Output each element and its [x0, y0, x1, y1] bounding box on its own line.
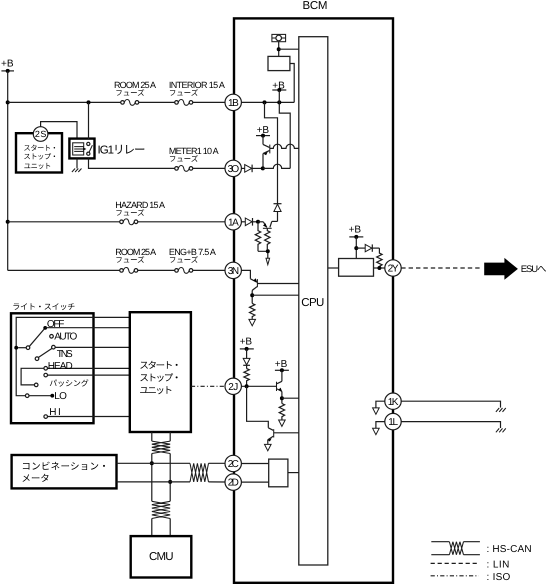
switch arm (pole to OFF): [29, 328, 45, 346]
wire resistor join: [258, 249, 268, 258]
junction CAN-L on rail 2: [168, 480, 172, 484]
wire relay contact feed from 1B row: [88, 102, 90, 139]
twisted pair braid (lower): [152, 501, 170, 518]
junction Q3 collector node: [250, 293, 254, 297]
node +B (Q4 collector): [275, 359, 289, 372]
wire 2Y driver to 2Y pin: [374, 267, 385, 269]
svg-text:CPU: CPU: [301, 297, 324, 309]
diode D4 (2J clamp): [243, 358, 250, 368]
switch pole contact circle: [26, 346, 30, 350]
switch arm 2 pole circle: [35, 357, 39, 361]
wire branch 1 (1B to 1A driver diode): [265, 102, 278, 203]
junction lamp node: [277, 47, 281, 51]
legend ISO symbol: [431, 575, 479, 577]
junction CAN-H on rail 1: [150, 461, 154, 465]
svg-text:AUTO: AUTO: [54, 332, 77, 343]
relay box (internal, top): [268, 56, 290, 70]
node +B (3O transistor): [256, 125, 270, 137]
svg-text:+B: +B: [275, 359, 288, 370]
svg-text:ストップ・: ストップ・: [139, 373, 181, 384]
resistor R5 (Q4 pulldown): [279, 404, 284, 420]
switch LO arm: [29, 395, 51, 397]
svg-text:3O: 3O: [228, 164, 240, 175]
relay IG1 contact symbol: [87, 142, 93, 155]
node +B (2J clamp chain): [240, 336, 254, 358]
svg-text:CMU: CMU: [149, 551, 174, 563]
CAN transceiver box: [269, 459, 288, 487]
junction on bus at 1B row: [6, 100, 10, 104]
wire meter CAN-L to braid: [117, 481, 191, 483]
wire row 1B internal: [241, 101, 294, 103]
wire Q3 collector to CPU: [252, 294, 299, 296]
wire LIN 2Y to ESU (dashed): [401, 267, 481, 269]
switch HI contact circle: [44, 415, 48, 419]
connector pin 1K: [385, 393, 401, 409]
svg-text:: LIN: : LIN: [487, 559, 510, 570]
wire 3O node to branch 2 (hops over branch 1): [263, 164, 290, 168]
svg-text:+B: +B: [1, 58, 14, 69]
BCM unit box: [234, 18, 393, 582]
svg-text:TNS: TNS: [57, 349, 73, 360]
2Y driver box: [339, 259, 374, 277]
junction R1/R2: [266, 249, 270, 253]
transistor Q1 (3O backup driver): [263, 136, 270, 169]
diode D5 (2Y clamp): [356, 244, 379, 251]
svg-text:2D: 2D: [228, 478, 239, 489]
arrow to ESU: [484, 258, 518, 280]
start-stop unit box (main): [130, 312, 191, 432]
switch passing contact circle: [44, 373, 48, 377]
wire 1K spare stub with open arrow: [376, 401, 385, 407]
connector pin 2C: [225, 455, 241, 471]
junction 2J node: [245, 384, 249, 388]
junction on bus at 1A row: [6, 220, 10, 224]
wire passing contact to start-stop unit: [48, 374, 130, 376]
junction 1A node: [256, 220, 260, 224]
resistor R2 (1A base): [265, 228, 270, 249]
svg-text:2C: 2C: [228, 459, 239, 470]
wire HI contact to start-stop unit: [48, 416, 130, 418]
transistor Q4 (2J level): [277, 370, 283, 403]
wire 2J node to Q5: [247, 386, 269, 428]
resistor R1 (1A pull): [255, 224, 260, 252]
svg-text:OFF: OFF: [47, 319, 64, 330]
switch arm 2 (to TNS): [38, 348, 52, 357]
switch LO arm pole circle: [25, 394, 29, 398]
CMU box: [131, 536, 192, 577]
lamp (interior light symbol inside BCM): [272, 34, 286, 41]
ground (IG1 relay coil): [72, 158, 82, 172]
wire braid to 2D pin: [209, 481, 225, 483]
fuse METER1 10 A (3O row): [175, 165, 193, 171]
connector pin 1B: [225, 94, 241, 110]
switch HEAD contact circle: [44, 367, 48, 371]
wire lamp node to CPU: [279, 48, 299, 50]
diode D1 (3O input): [245, 165, 263, 173]
svg-text:: ISO: : ISO: [487, 572, 511, 583]
wire switch common down to LO arm: [16, 348, 25, 396]
wire 1L to ground: [401, 422, 500, 428]
connector pin 3N: [225, 262, 241, 278]
switch TNS contact circle: [52, 345, 56, 349]
wire branch 2 (1B to 3O node): [279, 102, 290, 168]
connector pin 2Y: [385, 260, 401, 276]
diode D3 (zener above 1A transistor): [274, 204, 282, 222]
wire HEAD contact to start-stop unit: [48, 367, 130, 369]
wire Q3 base to CPU: [257, 283, 298, 285]
wire row 3N (battery to 3N pin): [8, 269, 225, 271]
wire left +B bus vertical: [7, 71, 9, 271]
wire 2J pin internal: [241, 385, 276, 387]
twisted pair braid (upper): [152, 441, 170, 453]
svg-text:ESUへ: ESUへ: [521, 264, 547, 275]
wire 2D pin to CAN transceiver: [241, 481, 269, 483]
svg-text:フューズ: フューズ: [115, 89, 145, 98]
wire meter CAN-H to braid: [117, 462, 191, 464]
connector pin 1L: [385, 413, 401, 429]
node +B (battery feed, top left): [1, 58, 14, 73]
transistor Q5 (2J output): [268, 428, 274, 444]
resistor R4 (2J input): [244, 369, 249, 387]
svg-text:+B: +B: [349, 225, 362, 236]
wire CPU to 2Y driver: [328, 267, 339, 269]
svg-text:フューズ: フューズ: [169, 256, 199, 265]
wire 2S to IG1 relay coil: [41, 122, 77, 139]
junction 1B branch 2 (+B tie): [277, 100, 281, 104]
resistor R6 (2Y): [377, 248, 382, 268]
open arrow (1K stub): [373, 408, 380, 414]
svg-text:2J: 2J: [228, 382, 238, 393]
fuse INTERIOR 15 A (1B row): [175, 99, 193, 105]
fuse ROOM 25 A (1B row): [121, 99, 139, 105]
svg-text:ユニット: ユニット: [24, 161, 52, 170]
wire 2C pin to CAN transceiver: [241, 463, 269, 465]
open arrow (1A to ground net): [266, 258, 270, 264]
wire Q1 base to CPU (hops over branches): [270, 144, 299, 148]
svg-text:IG1リレー: IG1リレー: [98, 144, 146, 156]
svg-text:1A: 1A: [228, 217, 239, 228]
wire internal relay output to 1B row: [290, 64, 294, 103]
svg-text:LO: LO: [54, 391, 67, 402]
svg-text:1B: 1B: [228, 98, 239, 109]
wire Q5 base to CPU: [274, 432, 299, 434]
wire 1A pin internal: [241, 221, 245, 223]
svg-text:スタート・: スタート・: [139, 360, 181, 371]
svg-text:BCM: BCM: [303, 0, 328, 12]
wire 1L spare stub with open arrow: [376, 422, 385, 428]
svg-text:HEAD: HEAD: [48, 361, 73, 372]
node +B (2Y driver): [349, 225, 364, 259]
light switch box: [11, 313, 94, 423]
wire row 1A (battery to 1A pin): [8, 221, 225, 223]
wire ISO start-stop unit to 2J pin (dash-dot): [191, 385, 225, 387]
svg-text:HI: HI: [49, 407, 61, 418]
twisted pair braid (meter to 2C/2D): [190, 463, 209, 482]
svg-text:パッシング: パッシング: [49, 379, 88, 388]
junction 3O node: [261, 166, 265, 170]
connector pin 1A: [225, 214, 241, 230]
svg-text:1L: 1L: [388, 417, 398, 428]
wire HS-CAN pair start-stop unit down (rail 1): [151, 432, 153, 536]
wire CAN transceiver to CPU: [288, 472, 299, 474]
junction 2Y node: [377, 266, 381, 270]
svg-text:フューズ: フューズ: [169, 89, 199, 98]
svg-text:2S: 2S: [35, 129, 47, 139]
svg-text:3N: 3N: [228, 266, 239, 277]
junction switch common pole: [14, 346, 18, 350]
fuse ROOM 25 A (3N row): [120, 267, 138, 273]
svg-text:フューズ: フューズ: [169, 155, 199, 164]
switch OFF contact dot: [43, 326, 47, 330]
switch passing pole circle: [34, 383, 38, 387]
ground (1L): [496, 428, 506, 432]
svg-text:コンビネーション・: コンビネーション・: [21, 462, 108, 473]
wire HEAD bracket to passing pole: [21, 368, 44, 385]
wire 1K to ground: [401, 401, 500, 407]
relay IG1 coil symbol: [73, 143, 87, 155]
fuse HAZARD 15 A (1A row): [120, 219, 138, 225]
switch AUTO contact circle: [50, 335, 54, 339]
connector pin 2S (start stop unit): [33, 127, 48, 142]
legend LIN symbol: [431, 562, 479, 564]
svg-text:ユニット: ユニット: [139, 386, 173, 397]
open arrow (1L stub): [373, 428, 380, 434]
start-stop unit box (small, left): [16, 133, 62, 172]
svg-text:: HS-CAN: : HS-CAN: [487, 544, 532, 555]
transistor Q3 (3N input): [250, 278, 257, 303]
svg-text:フューズ: フューズ: [115, 256, 145, 265]
wire relay contact output to 3O row: [89, 158, 225, 168]
CPU box U-CPU: [299, 37, 328, 565]
connector pin 2J: [225, 378, 241, 394]
wire row 1B (battery to 1B pin): [8, 101, 225, 103]
junction relay contact feed on 1B row: [87, 100, 91, 104]
svg-text:2Y: 2Y: [388, 264, 399, 275]
relay IG1 box: [69, 139, 94, 159]
svg-text:ライト・スイッチ: ライト・スイッチ: [12, 303, 75, 312]
connector pin 2D: [225, 474, 241, 490]
wire braid to 2C pin: [209, 462, 225, 464]
combination meter box: [12, 455, 117, 488]
node +B (above 1B row): [272, 80, 286, 102]
connector pin 3O: [225, 160, 241, 176]
svg-text:1K: 1K: [388, 397, 399, 408]
wire 3N pin internal: [241, 270, 250, 278]
transistor Q2 (1A sense): [258, 221, 278, 228]
wire TNS contact to start-stop unit: [55, 346, 130, 348]
junction 1B branch 1: [263, 100, 267, 104]
legend HS-CAN symbol: [431, 542, 480, 555]
wire pole dot to pole circle: [18, 347, 26, 349]
svg-text:メータ: メータ: [21, 474, 49, 485]
open arrow (Q4 ground net): [279, 420, 286, 426]
wire HS-CAN pair start-stop unit down (rail 2): [169, 432, 171, 536]
open arrow (3N ground net): [249, 319, 256, 325]
diode D2 (1A input): [245, 218, 258, 226]
switch LO contact dot: [50, 394, 54, 398]
ground (1K): [496, 408, 506, 412]
svg-text:フューズ: フューズ: [115, 209, 145, 218]
wire lamp to junction: [278, 42, 280, 57]
junction Q4 emitter node: [280, 396, 284, 400]
svg-text:ストップ・: ストップ・: [24, 152, 59, 161]
wire OFF contact to start-stop unit: [45, 327, 130, 329]
wire switch common feed (top) to start-stop unit: [16, 317, 130, 347]
open arrow (Q5 ground net): [265, 444, 272, 450]
resistor R3 (3N pulldown): [250, 303, 255, 319]
wire 3O pin internal: [241, 167, 245, 169]
junction +B/diode node: [354, 246, 358, 250]
fuse ENG+B 7.5 A (3N row): [175, 267, 193, 273]
wire Q4 emitter to CPU: [282, 397, 299, 399]
svg-text:+B: +B: [240, 336, 253, 347]
